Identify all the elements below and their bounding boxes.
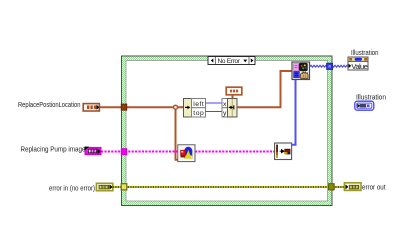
svg-text:Illustration: Illustration [356, 94, 386, 102]
tunnel error (right border) [329, 184, 335, 190]
terminal Replacing Pump image (picture control) [84, 147, 100, 155]
wire picture dashed from icon to draw-pixmap node [195, 151, 275, 153]
case selector label "No Error" [208, 57, 255, 66]
terminal Illustration control refnum [355, 101, 374, 110]
wire numeric left->x [206, 102, 223, 104]
node picture-to-pixmap with hand icon [292, 62, 310, 80]
wire constant stem [232, 95, 234, 99]
junction on cluster wire [174, 105, 178, 109]
tunnel picture (right border) [327, 63, 333, 69]
unbundle by name node (left, top) [184, 99, 206, 118]
terminal ReplacePostionLocation (cluster control) [83, 104, 99, 111]
tunnel cluster (left border) [121, 104, 127, 110]
tunnel error (left border) [121, 184, 127, 190]
terminal error in (cluster) [96, 183, 112, 190]
svg-text:left: left [193, 101, 204, 108]
svg-text:Replacing Pump image: Replacing Pump image [21, 145, 86, 153]
cluster constant above bundle [226, 87, 242, 95]
svg-text:y: y [223, 110, 227, 117]
wire picture zigzag from hand node to property node [310, 65, 349, 67]
svg-text:error in (no error): error in (no error) [49, 184, 95, 192]
wire cluster from ReplacePostionLocation to unbundle [99, 106, 183, 108]
svg-text:Illustration: Illustration [351, 49, 379, 57]
svg-text:No Error: No Error [218, 58, 241, 65]
svg-text:top: top [193, 110, 204, 117]
wire cluster from bundle to picture-hand node [237, 71, 292, 107]
bundle node (x, y) [222, 99, 237, 118]
svg-text:error out: error out [362, 183, 386, 191]
wire numeric top->y [206, 111, 223, 113]
wire cluster branch down to picture icon [176, 107, 179, 160]
wire error dashed across diagram [113, 186, 345, 188]
wire picture dashed from terminal to icon [101, 151, 178, 153]
terminal error out (cluster indicator) [344, 183, 361, 191]
case structure border (No Error case) [122, 56, 333, 206]
icon robot/pump picture function [178, 145, 195, 162]
tunnel picture (left border) [121, 149, 127, 155]
wire picture blue from draw node up to hand node [292, 79, 296, 145]
svg-text:Value: Value [351, 62, 368, 71]
svg-text:x: x [223, 101, 227, 108]
svg-text:ReplacePostionLocation: ReplacePostionLocation [18, 101, 81, 109]
node Draw Flattened Pixmap [275, 143, 292, 160]
property node Illustration.Value [348, 57, 368, 71]
